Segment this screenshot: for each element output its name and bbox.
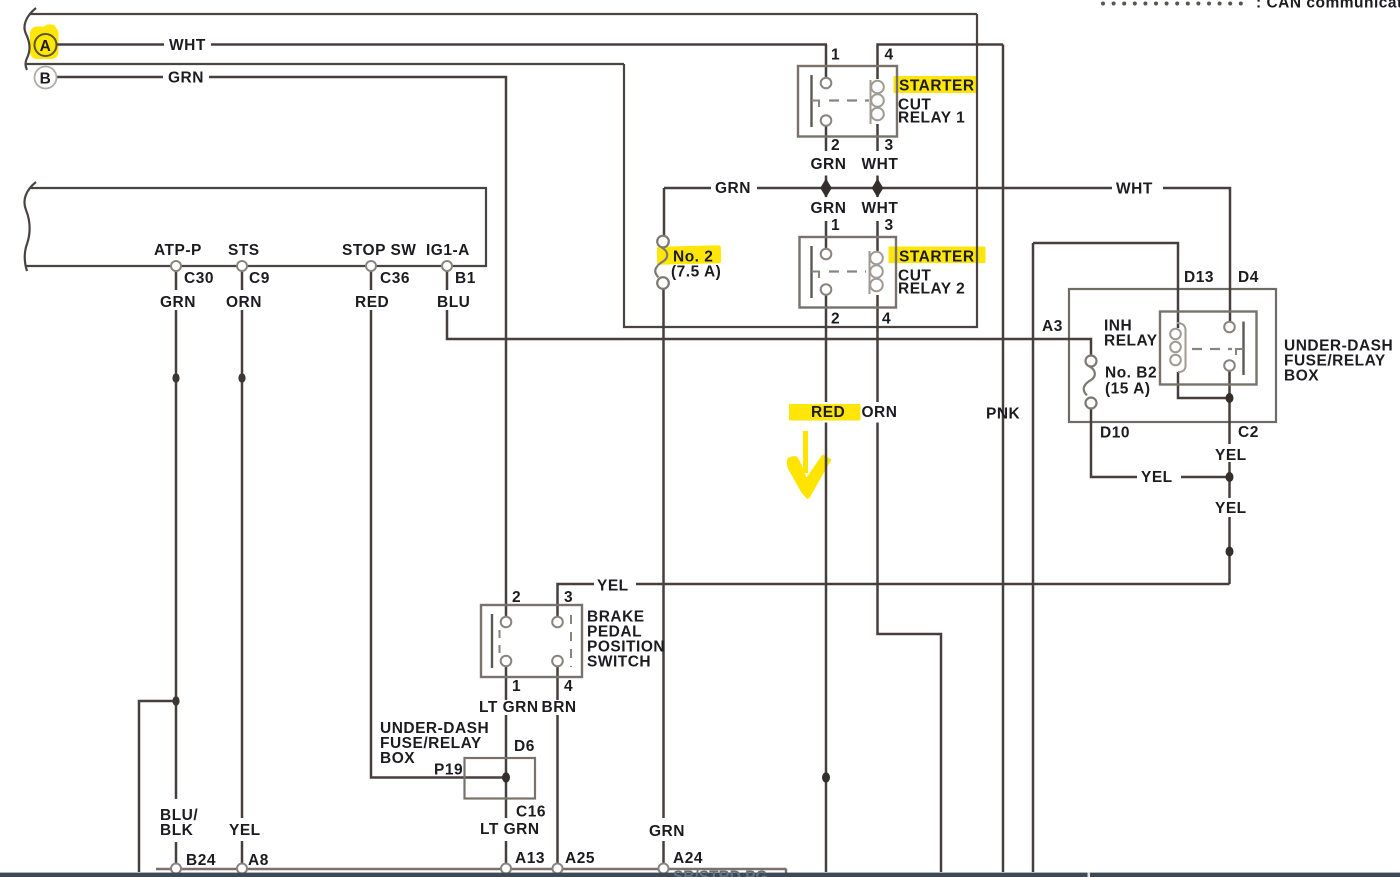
wire GRN from terminal B down to brake pedal position switch pin 2 (56, 76, 163, 79)
svg-text:LT GRN: LT GRN (479, 699, 539, 716)
svg-text:WHT: WHT (169, 37, 206, 54)
junction node splice on YEL wire (1226, 547, 1234, 557)
relay 1 armature tick (812, 101, 820, 108)
svg-text:C30: C30 (184, 270, 214, 287)
ECM connector bump B24 (171, 864, 181, 874)
svg-text:1: 1 (512, 678, 521, 695)
svg-text:WHT: WHT (1116, 181, 1153, 198)
highlight marker over fuse label No. 2 (657, 245, 721, 265)
svg-text:ORN: ORN (226, 294, 262, 311)
svg-text:BLU: BLU (437, 294, 470, 311)
brake switch inner dashed linkage (right) (570, 615, 572, 667)
wire WHT junction down to relay 2 pin 3 (coil) (876, 221, 879, 251)
junction node on ATP-P wire (splice) (172, 373, 179, 383)
connector box P19 (under-dash fuse/relay box, D6/C16) (465, 758, 536, 799)
svg-text:4: 4 (885, 47, 894, 64)
svg-text:B1: B1 (455, 270, 476, 287)
svg-text:B: B (40, 71, 52, 88)
brake switch pin 2 contact circle (501, 617, 512, 628)
svg-text:YEL: YEL (1141, 469, 1173, 486)
relay 2 linkage dashed line (829, 270, 866, 272)
svg-text:D13: D13 (1184, 269, 1214, 286)
junction node INH relay outputs (1226, 393, 1234, 403)
brake switch pin 4 contact circle (552, 656, 563, 667)
junction node ATP-P wire to left branch (172, 696, 179, 706)
svg-text:BOX: BOX (1284, 368, 1319, 385)
wire from INH relay contacts down to C2 / YEL junctions, label breaks (1228, 370, 1231, 398)
svg-text:D10: D10 (1100, 425, 1130, 442)
svg-text:(7.5 A): (7.5 A) (671, 264, 721, 281)
brake switch pin 1 contact circle (501, 656, 512, 667)
wire YEL horizontal from brake pedal position switch pin 3, label break (636, 583, 1230, 586)
INH relay top contact circle (1224, 322, 1235, 333)
bottom bar seam (1088, 873, 1091, 877)
relay 1 switch contact bar (810, 75, 812, 127)
wire GRN/BLU-BLK from C30 down to ECM terminal B24, label breaks (175, 310, 178, 799)
svg-text:B24: B24 (186, 852, 216, 869)
svg-text:P19: P19 (434, 762, 463, 779)
svg-text:GRN: GRN (715, 180, 751, 197)
svg-text:YEL: YEL (1215, 500, 1247, 517)
wire ORN/YEL from C9 down to ECM terminal A8, label breaks (241, 310, 244, 818)
wire from GRN horizontal down to fuse No. 2 (663, 188, 666, 236)
svg-text:WHT: WHT (862, 200, 899, 217)
svg-text:ATP-P: ATP-P (154, 242, 202, 259)
svg-text:3: 3 (885, 217, 894, 234)
bottom window bar (0, 873, 1400, 877)
connector bump B1 (442, 261, 452, 271)
highlight marker over RED wire label (789, 404, 861, 421)
svg-text:YEL: YEL (1215, 447, 1247, 464)
INH relay coil (1170, 323, 1185, 372)
connector bump C30 (171, 261, 181, 271)
wire WHT from corner to under-dash box terminal D13 (1033, 243, 1178, 328)
svg-text:WHT: WHT (862, 156, 899, 173)
INH relay bottom contact circle (1224, 360, 1235, 371)
svg-text:2: 2 (831, 311, 840, 328)
harness connector box (top, terminals A/B) with break squiggle (24, 8, 977, 70)
svg-text:LT GRN: LT GRN (480, 821, 540, 838)
svg-text:1: 1 (831, 47, 840, 64)
svg-text:1: 1 (831, 217, 840, 234)
wire from fuse No.B2 down to D10 then right to YEL junction, label break (1091, 409, 1137, 478)
ECM connector bump A13 (501, 864, 511, 874)
INH relay switch contact bar (1242, 322, 1244, 376)
wire GRN junction down to relay 2 pin 1 (825, 221, 828, 249)
UNDER-DASH FUSE/RELAY BOX outline (right) (1069, 289, 1276, 422)
svg-text:SB/STRD PG: SB/STRD PG (673, 869, 768, 877)
svg-text:C2: C2 (1238, 424, 1259, 441)
relay U1: STARTER CUT RELAY 1 body (798, 66, 897, 137)
svg-text:YEL: YEL (229, 822, 261, 839)
brake switch inner dashed linkage (left) (499, 630, 501, 656)
svg-text:BOX: BOX (380, 750, 415, 767)
relay 2 pin 1 contact circle (821, 249, 832, 260)
relay U3: INH RELAY body (1160, 312, 1257, 385)
connector bump C36 (366, 261, 376, 271)
svg-text:STS: STS (228, 242, 260, 259)
wire BLU from B1 down and right to under-dash box terminal A3 / fuse No.B2 (447, 310, 1091, 356)
svg-text:RELAY 1: RELAY 1 (898, 110, 965, 127)
wire WHT from terminal A to relay 1 pin 1 (56, 43, 164, 46)
svg-text:2: 2 (512, 589, 521, 606)
svg-text:No. B2: No. B2 (1105, 365, 1157, 382)
wire from INH relay coil bottom to junction node (1178, 372, 1230, 398)
relay 2 pin 2 contact circle (821, 284, 832, 295)
fuse F2: No. B2 (15 A) (1084, 356, 1097, 409)
svg-text:D6: D6 (514, 738, 535, 755)
ECM box top edge (bottom of page) (156, 868, 786, 870)
svg-text:BRN: BRN (542, 699, 577, 716)
svg-text:2: 2 (831, 137, 840, 154)
wire from relay 1 pin 4 over to vertical run at x=1003 (878, 45, 1004, 80)
ECM connector bump A8 (237, 864, 247, 874)
svg-text:A3: A3 (1042, 318, 1063, 335)
junction node GRN (between relays) (820, 179, 832, 198)
svg-text:RED: RED (355, 294, 389, 311)
svg-text:SWITCH: SWITCH (587, 654, 651, 671)
svg-text:C16: C16 (516, 804, 546, 821)
wire WHT horizontal to under-dash box terminal D4, label break (1163, 188, 1230, 321)
svg-text:D4: D4 (1238, 269, 1259, 286)
svg-text:A13: A13 (515, 850, 545, 867)
wire stub STOP SW / C36 with RED label break (370, 267, 373, 290)
svg-text:C9: C9 (249, 270, 270, 287)
terminal A circle (35, 34, 57, 56)
svg-text:4: 4 (882, 311, 891, 328)
junction node in P19 box (RED to LT GRN) (502, 772, 510, 782)
yellow annotation arrow pointing at RED wire (787, 431, 832, 499)
relay 1 pin 1 contact circle (821, 78, 832, 89)
svg-text:GRN: GRN (811, 156, 847, 173)
svg-text:RED: RED (811, 404, 845, 421)
wire RED from relay 2 pin 2 down to bottom edge, highlight break (825, 294, 828, 402)
relay 2 coil (870, 251, 883, 294)
wire relay 1 pin 2 down to GRN junction node (825, 126, 828, 151)
connector bump C9 (237, 261, 247, 271)
svg-text:IG1-A: IG1-A (426, 242, 470, 259)
wire relay 1 pin 3 (coil) down to WHT junction node (876, 124, 879, 151)
wire BRN from brake switch pin 4 down to ECM terminal A25, label break (556, 666, 559, 700)
svg-text:ORN: ORN (862, 404, 898, 421)
svg-text:GRN: GRN (811, 200, 847, 217)
INH relay armature tick (1236, 349, 1244, 355)
brake switch pin 3 contact circle (552, 617, 563, 628)
highlight marker over STARTER (relay 2) (889, 247, 986, 264)
relay 1 linkage dashed line (829, 99, 869, 101)
svg-text:STARTER: STARTER (899, 78, 975, 95)
svg-text:: CAN communication line: : CAN communication line (1256, 0, 1400, 12)
highlight marker over terminal A (30, 25, 59, 60)
svg-text:YEL: YEL (597, 578, 629, 595)
wire RED from C36 down and right into P19 junction (371, 310, 505, 778)
wire ORN from relay 2 pin 4 down with jog to bottom edge, highlight break (876, 295, 879, 402)
svg-text:BLK: BLK (160, 822, 194, 839)
enclosure box around starter cut relays 1 and 2 (624, 14, 977, 327)
harness connector box (left, ATP-P/STS/STOP SW/IG1-A) with break squiggle (24, 182, 486, 271)
legend dotted line (top right, clipped) (1101, 2, 1243, 6)
svg-text:A24: A24 (673, 850, 703, 867)
long vertical wire x=1003 down to bottom edge (1002, 45, 1005, 873)
svg-text:STARTER: STARTER (899, 249, 975, 266)
svg-text:A8: A8 (248, 852, 269, 869)
brake switch contact bar (491, 614, 493, 668)
fuse F1: No. 2 (7.5 A) (655, 236, 669, 289)
INH relay linkage dashed line (1192, 348, 1232, 350)
highlight marker over STARTER (relay 1) (894, 76, 979, 93)
ECM box right edge (clipped) (785, 869, 787, 875)
relay 2 switch contact bar (810, 246, 812, 298)
svg-text:(15 A): (15 A) (1105, 381, 1151, 398)
wire stub IG1-A / B1 with BLU label break (446, 267, 449, 290)
wire stub ATP-P / C30 with GRN label break (175, 267, 178, 290)
ECM connector bump A24 (659, 864, 669, 874)
ECM connector bump A25 (553, 864, 563, 874)
wire GRN horizontal from fuse No.2 to junction, label break (664, 187, 711, 190)
svg-text:A: A (40, 38, 52, 55)
junction node YEL (C2/D10) (1226, 472, 1234, 482)
svg-text:A25: A25 (565, 850, 595, 867)
switch S1: BRAKE PEDAL POSITION SWITCH body (481, 605, 582, 677)
svg-text:GRN: GRN (649, 823, 685, 840)
svg-text:4: 4 (564, 678, 573, 695)
svg-text:PNK: PNK (986, 406, 1021, 423)
relay 1 coil (871, 80, 884, 124)
junction node WHT (between relays) (872, 179, 884, 198)
svg-text:3: 3 (564, 589, 573, 606)
svg-text:STOP SW: STOP SW (342, 242, 416, 259)
junction node splice on RED wire (822, 772, 830, 782)
terminal B circle (35, 67, 57, 89)
relay 2 armature tick (812, 272, 820, 279)
svg-text:3: 3 (885, 137, 894, 154)
svg-text:RELAY 2: RELAY 2 (898, 281, 965, 298)
svg-text:RELAY: RELAY (1104, 333, 1158, 350)
svg-text:C36: C36 (380, 270, 410, 287)
wire GRN from fuse No.2 down to ECM terminal A24, label break (662, 289, 665, 818)
junction node on STS wire (splice) (238, 373, 245, 383)
branch wire from splice to far-left vertical down to bottom edge (139, 701, 176, 872)
svg-text:GRN: GRN (168, 70, 204, 87)
relay U2: STARTER CUT RELAY 2 body (800, 237, 897, 308)
wire stub STS / C9 with ORN label break (241, 267, 244, 290)
svg-text:GRN: GRN (160, 294, 196, 311)
wire PNK vertical from D13 corner down to bottom edge (1032, 243, 1035, 872)
relay 1 pin 2 contact circle (821, 115, 832, 126)
wire LT GRN from brake switch pin 1 through P19 to ECM terminal A13, label breaks (505, 666, 508, 700)
